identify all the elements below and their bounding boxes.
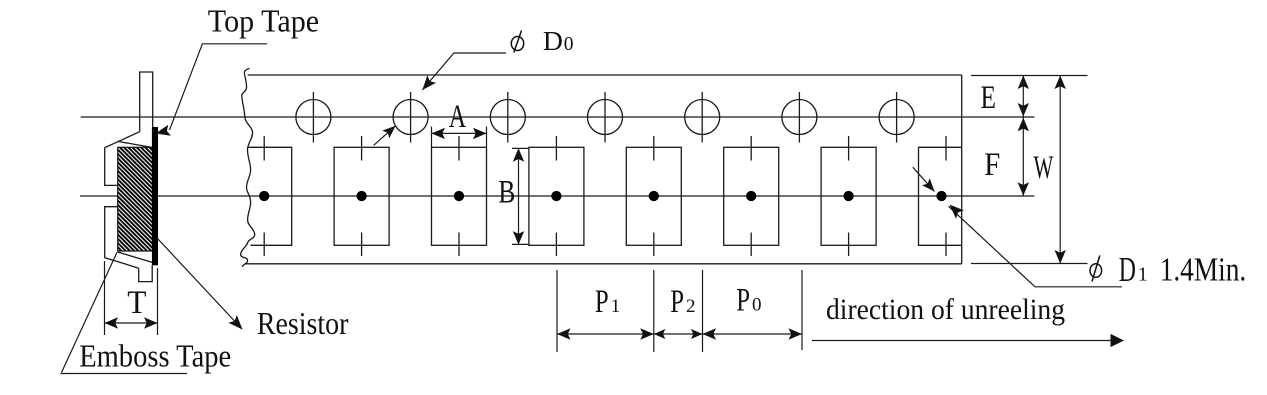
svg-text:1.4Min.: 1.4Min. [1160, 252, 1247, 289]
svg-text:W: W [1034, 150, 1054, 186]
svg-text:1: 1 [1138, 264, 1148, 286]
svg-text:1: 1 [611, 296, 621, 317]
svg-text:Resistor: Resistor [257, 305, 349, 341]
svg-text:direction of unreeling: direction of unreeling [826, 293, 1065, 326]
svg-text:D: D [1119, 250, 1136, 289]
svg-text:F: F [984, 147, 1000, 183]
svg-text:0: 0 [752, 295, 762, 316]
svg-text:A: A [449, 99, 467, 135]
svg-text:P: P [670, 284, 684, 320]
svg-text:Emboss Tape: Emboss Tape [79, 338, 231, 374]
svg-text:P: P [595, 284, 609, 320]
svg-text:2: 2 [686, 296, 696, 317]
svg-text:E: E [981, 80, 997, 116]
svg-text:B: B [498, 175, 515, 211]
svg-text:T: T [127, 285, 146, 321]
svg-text:0: 0 [564, 34, 574, 55]
svg-text:P: P [736, 283, 750, 319]
svg-text:D: D [543, 26, 563, 56]
svg-text:Top Tape: Top Tape [208, 3, 319, 39]
